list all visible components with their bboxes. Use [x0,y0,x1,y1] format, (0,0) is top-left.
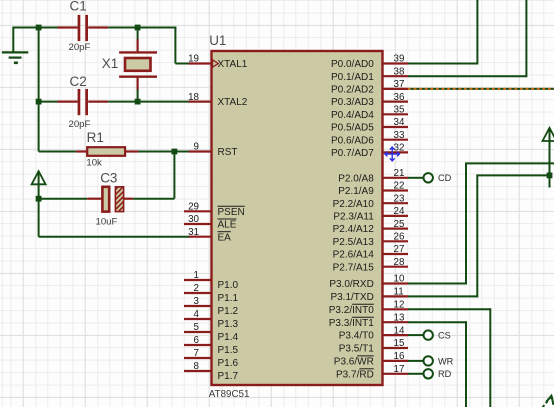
pin 39 P0.0/AD0 stub [383,62,409,64]
svg-text:WR: WR [438,356,454,366]
svg-text:22: 22 [394,181,405,192]
svg-text:P3.5/T1: P3.5/T1 [339,344,374,355]
svg-text:35: 35 [394,105,405,116]
junction R1/C3 branch/RST [172,149,178,155]
overline PSEN [218,205,245,207]
wire pin21 to CD terminal [408,177,423,179]
pin 25 P2.4/A12 stub [383,228,409,230]
svg-text:39: 39 [394,54,405,65]
pin 15 P3.5/T1 stub [383,347,409,349]
svg-text:R1: R1 [87,130,104,145]
svg-text:4: 4 [194,309,200,320]
svg-text:P3.0/RXD: P3.0/RXD [329,279,373,290]
svg-text:28: 28 [394,257,405,268]
svg-text:29: 29 [188,202,199,213]
wire pin11 vertical up [476,175,478,297]
pin 29 PSEN stub [184,210,212,212]
pin 4 P1.3 stub [184,318,212,320]
svg-text:CS: CS [438,331,451,341]
junction C1/X1 top [135,25,141,31]
terminal CS circle [424,330,433,339]
svg-text:P1.3: P1.3 [218,319,239,330]
wire pin37 (highlighted/dashed) [408,88,554,90]
wire pin10 to right edge [465,162,554,164]
pin 30 ALE stub [184,223,212,225]
wire pin38 vertical up [525,0,527,77]
svg-text:P1.7: P1.7 [218,371,239,382]
power terminal (up arrow, right) [543,128,554,188]
wire pin10 vertical up [465,163,467,284]
pin 8 P1.7 stub [184,370,212,372]
svg-text:11: 11 [394,287,404,298]
svg-text:30: 30 [188,214,199,225]
overline EA [218,231,231,233]
cursor crosshair (pin 32) [385,146,400,161]
svg-text:P3.4/T0: P3.4/T0 [339,331,374,342]
svg-text:1: 1 [194,270,199,281]
svg-text:XTAL2: XTAL2 [218,97,248,108]
wire R1 right to RST [138,151,189,153]
svg-text:XTAL1: XTAL1 [218,59,248,70]
pin 31 EA stub [189,236,212,238]
svg-text:32: 32 [394,143,405,154]
svg-text:AT89C51: AT89C51 [209,389,250,400]
svg-text:10uF: 10uF [96,216,118,227]
overline WR [357,355,374,357]
ground [2,52,29,62]
overline INT1 [352,316,374,318]
svg-text:36: 36 [394,92,405,103]
pin 12 P3.2/INT0 stub [383,308,409,310]
svg-text:12: 12 [394,300,405,311]
pin 13 P3.3/INT1 stub [383,321,409,323]
svg-text:C2: C2 [70,74,87,89]
svg-text:CD: CD [438,173,452,183]
svg-text:P2.6/A14: P2.6/A14 [333,250,375,261]
svg-text:C1: C1 [70,0,87,14]
wire to WR terminal [408,360,423,362]
junction C2 left [36,99,42,105]
pin 35 P0.4/AD4 stub [383,113,409,115]
wire pin11 to power [476,174,549,176]
wire C2 right to XTAL2 [108,101,189,103]
pin 22 P2.1/A9 stub [383,189,409,191]
svg-text:18: 18 [188,92,199,103]
pin 38 P0.1/AD1 stub [383,75,409,77]
wire pin38 horizontal [408,75,526,77]
pin 32 P0.7/AD7 stub [383,151,409,153]
svg-text:10: 10 [394,274,405,285]
junction C2/X1 bottom [135,99,141,105]
pin 26 P2.5/A13 stub [383,240,409,242]
svg-text:5: 5 [194,322,200,333]
svg-text:P3.7/RD: P3.7/RD [336,369,374,380]
svg-text:RST: RST [218,147,238,158]
svg-text:P0.7/AD7: P0.7/AD7 [331,148,374,159]
wire C3 branch up to RST net [173,151,175,199]
svg-text:P0.4/AD4: P0.4/AD4 [331,110,374,121]
power terminal (up arrow, left) [32,171,46,199]
wire pin12 horizontal [408,308,490,310]
svg-text:P2.4/A12: P2.4/A12 [333,224,375,235]
svg-text:14: 14 [394,325,405,336]
wire pin39 vertical up [476,0,478,65]
pin 17 P3.7/RD stub [383,373,409,375]
pin 3 P1.2 stub [184,305,212,307]
svg-text:19: 19 [188,54,199,65]
wire pin12 vertical down [489,308,491,407]
wire down to EA row [38,198,40,237]
svg-text:3: 3 [194,296,200,307]
svg-text:U1: U1 [209,33,226,48]
pin 27 P2.6/A14 stub [383,253,409,255]
svg-text:P0.1/AD1: P0.1/AD1 [331,72,374,83]
pin 23 P2.2/A10 stub [383,202,409,204]
wire pin39 horizontal [408,63,477,65]
svg-text:P1.6: P1.6 [218,358,239,369]
wire ground row to C1 left [13,27,58,29]
pin 6 P1.5 stub [184,344,212,346]
svg-text:31: 31 [188,227,199,238]
pin 19 XTAL1 stub [189,62,212,64]
wire C3 left [39,198,88,200]
svg-text:P0.0/AD0: P0.0/AD0 [331,59,374,70]
svg-text:C3: C3 [100,171,117,186]
wire ground stem [12,27,14,53]
pin 9 RST stub [189,150,212,152]
svg-text:P3.6/WR: P3.6/WR [334,357,374,368]
pin 21 P2.0/A8 stub [383,177,409,179]
pin 11 P3.1/TXD stub [383,295,409,297]
svg-text:P2.7/A15: P2.7/A15 [333,262,375,273]
svg-text:16: 16 [394,351,405,362]
svg-text:7: 7 [194,348,199,359]
pin 33 P0.6/AD6 stub [383,139,409,141]
svg-text:8: 8 [194,361,200,372]
svg-text:13: 13 [394,312,405,323]
wire pin13 horizontal [408,321,466,323]
svg-text:38: 38 [394,66,405,77]
svg-text:P0.5/AD5: P0.5/AD5 [331,123,374,134]
wire C1 right to corner [108,27,176,29]
svg-text:9: 9 [194,142,199,153]
pin 16 P3.6/WR stub [383,360,409,362]
svg-text:37: 37 [394,79,405,90]
junction arrow/C3 left/EA branch [36,196,42,202]
svg-text:24: 24 [394,206,405,217]
wire C3 right [133,198,175,200]
svg-text:P3.3/INT1: P3.3/INT1 [329,318,374,329]
wire to CS terminal [408,334,423,336]
svg-text:P2.2/A10: P2.2/A10 [333,199,375,210]
capacitor C1 [58,26,78,28]
crystal X1 [137,28,139,41]
svg-text:P1.2: P1.2 [218,306,239,317]
wire corner down to XTAL1 [174,27,176,64]
svg-text:25: 25 [394,219,405,230]
overline RD [359,368,373,370]
svg-text:P1.1: P1.1 [218,293,239,304]
svg-text:2: 2 [194,283,199,294]
svg-text:P3.2/INT0: P3.2/INT0 [329,305,374,316]
svg-text:PSEN: PSEN [218,207,245,218]
svg-text:P1.4: P1.4 [218,332,239,343]
pin 10 P3.0/RXD stub [383,282,409,284]
svg-text:15: 15 [394,338,405,349]
pin 14 P3.4/T0 stub [383,334,409,336]
svg-text:ALE: ALE [218,220,237,231]
wire C2 left [39,101,58,103]
svg-text:23: 23 [394,193,405,204]
pin 37 P0.2/AD2 stub [383,88,409,90]
svg-text:P3.1/TXD: P3.1/TXD [330,292,373,303]
svg-text:6: 6 [194,335,200,346]
terminal WR circle [424,356,433,365]
junction pin11 wire / power pin [547,173,553,179]
svg-text:P0.2/AD2: P0.2/AD2 [331,85,374,96]
svg-text:33: 33 [394,130,405,141]
terminal RD circle [424,369,433,378]
pin 18 XTAL2 stub [189,100,212,102]
pin 28 P2.7/A15 stub [383,266,409,268]
power terminal (partial, bottom-right corner) [543,396,554,407]
svg-text:P2.1/A9: P2.1/A9 [338,186,374,197]
svg-text:26: 26 [394,232,405,243]
svg-text:P1.0: P1.0 [218,280,239,291]
svg-text:P2.3/A11: P2.3/A11 [333,212,374,223]
pin 5 P1.4 stub [184,331,212,333]
junction ground row / left bus [36,25,42,31]
svg-text:34: 34 [394,117,405,128]
overline ALE [218,218,237,220]
svg-text:P1.5: P1.5 [218,345,239,356]
wire into XTAL1 pin [175,63,189,65]
svg-text:10k: 10k [86,157,102,168]
wire pin11 horizontal [408,295,477,297]
pin 36 P0.3/AD3 stub [383,100,409,102]
svg-text:27: 27 [394,244,405,255]
overline INT0 [352,303,374,305]
XTAL1 clock chevron [213,60,219,67]
wire left bus vertical [38,28,40,152]
svg-text:20pF: 20pF [69,42,91,53]
svg-text:P0.6/AD6: P0.6/AD6 [331,135,374,146]
chip U1 body [212,51,383,385]
svg-text:20pF: 20pF [69,119,91,130]
svg-text:P0.3/AD3: P0.3/AD3 [331,97,374,108]
pin 7 P1.6 stub [184,357,212,359]
wire to EA pin [39,236,190,238]
svg-text:P2.5/A13: P2.5/A13 [333,237,375,248]
terminal CD circle [424,173,433,182]
svg-text:P2.0/A8: P2.0/A8 [338,173,374,184]
pin 24 P2.3/A11 stub [383,215,409,217]
pin 2 P1.1 stub [184,292,212,294]
wire to RD terminal [408,373,423,375]
svg-text:X1: X1 [102,56,119,71]
svg-text:17: 17 [394,364,405,375]
wire pin13 vertical down [465,321,467,407]
svg-text:21: 21 [394,168,405,179]
svg-text:RD: RD [438,369,452,379]
wire pin10 horizontal [408,283,466,285]
pin 1 P1.0 stub [184,279,212,281]
wire R1 left [39,151,76,153]
pin 34 P0.5/AD5 stub [383,126,409,128]
svg-text:EA: EA [218,232,232,243]
